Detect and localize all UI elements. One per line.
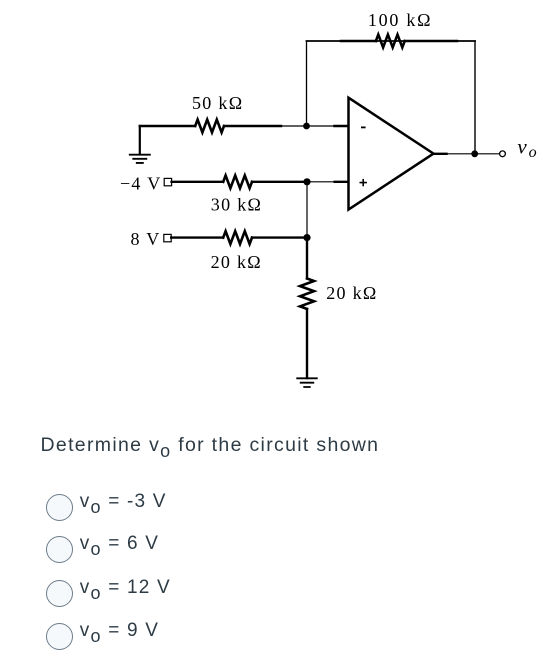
wire node to op-amp thin <box>281 125 335 127</box>
svg-text:20 kΩ: 20 kΩ <box>326 283 377 303</box>
op-amp triangle <box>349 98 434 210</box>
terminal vo open circle <box>500 151 506 157</box>
svg-text:20 kΩ: 20 kΩ <box>211 252 262 272</box>
wire 100k leads <box>341 40 457 43</box>
wire to bottom ground <box>306 309 308 378</box>
wire 30k to node <box>252 181 304 183</box>
option C radio <box>46 580 171 607</box>
wire feedback right vertical <box>474 41 476 154</box>
wire 20k to node <box>252 236 304 238</box>
wire inverting input stub <box>335 125 349 127</box>
resistor 100k <box>376 35 405 48</box>
wire top feedback rail <box>307 40 476 42</box>
node B <box>303 234 310 241</box>
wire noninverting input stub <box>335 181 349 183</box>
svg-text:50 kΩ: 50 kΩ <box>192 93 243 113</box>
ground left <box>130 155 150 163</box>
svg-text:−4 V: −4 V <box>120 173 162 193</box>
svg-text:o: o <box>529 144 538 161</box>
resistor 50k <box>195 120 224 133</box>
svg-text:v: v <box>517 135 528 159</box>
wire output to terminal thin <box>447 153 500 155</box>
wire output stub <box>434 153 447 155</box>
op-amp plus mark <box>360 180 366 186</box>
resistor 30k <box>223 175 252 188</box>
port 8V <box>164 234 171 241</box>
wire node B down <box>306 238 308 279</box>
wire ground stem left <box>139 126 141 154</box>
wire 50k branch left <box>140 125 195 127</box>
wire -4V to 30k <box>172 181 224 183</box>
option D radio <box>46 623 159 650</box>
resistor 20k horizontal <box>223 231 252 244</box>
wire 8V to 20k <box>171 236 223 238</box>
option A radio <box>46 494 167 521</box>
wire node to noninverting thin <box>304 181 335 183</box>
wire 50k to node <box>224 125 281 127</box>
node inverting input <box>303 123 310 130</box>
port -4V <box>164 178 171 185</box>
wire node A to node B thin vertical <box>306 182 308 238</box>
resistor 20k vertical <box>300 279 314 309</box>
op-amp minus mark <box>362 126 365 128</box>
svg-text:100 kΩ: 100 kΩ <box>368 10 432 30</box>
node A noninverting <box>303 178 310 185</box>
option B radio <box>46 536 159 563</box>
svg-text:30 kΩ: 30 kΩ <box>211 194 262 214</box>
wire feedback left vertical <box>306 41 308 126</box>
svg-text:8 V: 8 V <box>131 229 161 249</box>
ground bottom <box>297 378 317 387</box>
node output <box>471 150 478 157</box>
question text <box>41 434 380 457</box>
